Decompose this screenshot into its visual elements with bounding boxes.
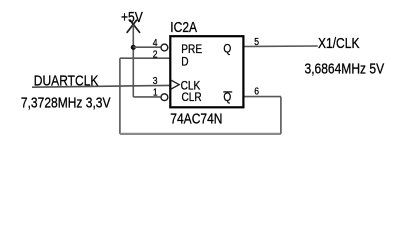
net +5V supply symbol arrow (127, 20, 140, 33)
bubble pin 1 CLR (161, 94, 168, 101)
bubble pin 4 PRE (161, 44, 168, 51)
svg-text:74AC74N: 74AC74N (170, 111, 222, 127)
svg-text:2: 2 (153, 48, 158, 60)
wire +5V vertical to CLR (132, 47, 134, 97)
svg-text:X1/CLK: X1/CLK (318, 35, 360, 51)
wire +5V stem (132, 25, 134, 47)
wire feedback right vertical (280, 97, 282, 134)
svg-text:3,6864MHz 5V: 3,6864MHz 5V (305, 61, 385, 77)
junction dot at +5V branch (131, 45, 136, 50)
wire pin 5 Q output to X1/CLK (244, 45, 317, 48)
overline of Q-bar (223, 91, 232, 93)
op IC2A 74AC74N flip-flop body (170, 36, 243, 107)
svg-text:D: D (181, 56, 188, 69)
svg-text:Q: Q (223, 91, 231, 104)
clock triangle pin 3 (171, 80, 180, 89)
svg-text:CLR: CLR (182, 91, 202, 104)
svg-text:+5V: +5V (121, 9, 143, 25)
wire DUARTCLK to pin 3 CLK (32, 85, 169, 87)
svg-text:7,3728MHz 3,3V: 7,3728MHz 3,3V (21, 95, 111, 111)
wire feedback bottom horizontal (120, 133, 281, 135)
wire pin 6 Q-bar output (244, 96, 281, 98)
wire to pin 1 CLR (133, 96, 160, 98)
svg-text:1: 1 (153, 86, 158, 98)
wire to pin 4 PRE (133, 46, 160, 48)
svg-text:IC2A: IC2A (170, 19, 197, 35)
svg-text:Q: Q (223, 42, 231, 55)
wire feedback left vertical (119, 58, 121, 134)
svg-text:PRE: PRE (181, 43, 202, 56)
svg-text:3: 3 (153, 74, 158, 86)
svg-text:6: 6 (254, 85, 259, 97)
svg-text:5: 5 (254, 35, 259, 47)
wire pin 2 D feedback (120, 57, 169, 59)
